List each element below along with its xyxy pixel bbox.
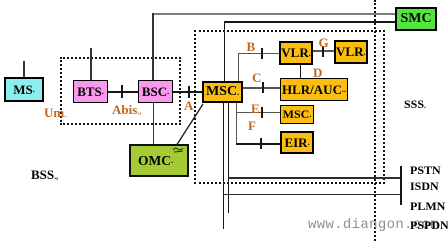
wire A BSC-MSC	[173, 91, 202, 93]
wire B to VLR	[238, 53, 279, 54]
watermark	[308, 217, 439, 233]
wire D VLR to HLR	[300, 65, 301, 79]
VLR box 2	[334, 40, 369, 64]
MSC2 box	[280, 105, 314, 124]
MSC box	[202, 81, 243, 103]
full-height dotted divider line	[374, 0, 376, 241]
HLR/AUC box	[280, 78, 348, 101]
wire E/F stem below MSC	[236, 103, 237, 144]
wire Abis BTS-BSC	[108, 91, 138, 93]
label C	[252, 71, 261, 84]
wire C MSC to HLR	[243, 87, 280, 89]
label PLMN	[410, 200, 445, 212]
wire to PSTN row	[228, 177, 401, 179]
label PSTN	[410, 164, 441, 176]
label D	[313, 66, 322, 79]
wire E to MSC2	[236, 112, 280, 113]
tick on A	[188, 86, 190, 98]
SSS dashed enclosure	[194, 30, 385, 184]
BSC box	[138, 80, 173, 103]
label G	[319, 36, 329, 49]
label B	[247, 40, 256, 53]
tick on Abis	[121, 85, 123, 98]
wire to PLMN row	[223, 194, 401, 196]
wire B stem up from MSC	[238, 53, 239, 81]
BTS box	[73, 80, 108, 103]
label SSS	[404, 98, 426, 110]
MS box	[4, 77, 44, 102]
SMC box	[395, 7, 437, 31]
wire above BTS	[90, 48, 92, 80]
label ISDN	[410, 180, 439, 192]
tick on E	[261, 107, 263, 118]
antenna wire above MS	[23, 61, 25, 77]
wire F to EIR	[236, 143, 280, 144]
label E	[251, 102, 260, 115]
tick on C	[262, 82, 264, 93]
label Um	[44, 106, 66, 119]
trunk wire 2 below MSC	[228, 103, 229, 213]
EIR box	[280, 131, 314, 154]
label PSPDN	[410, 219, 448, 231]
wire V1 down to BSC	[152, 13, 154, 81]
tick on G	[322, 46, 324, 57]
wire G between VLRs	[313, 50, 334, 51]
BSS dashed enclosure	[60, 57, 181, 125]
label A	[184, 99, 193, 112]
wire V2 down to MSC	[224, 21, 225, 81]
trunk wire 1 below MSC	[223, 103, 224, 229]
tick on F	[260, 138, 262, 149]
VLR box 1	[279, 41, 313, 65]
label F	[248, 119, 256, 132]
OMC corner squiggle	[172, 146, 184, 153]
OMC box	[129, 144, 189, 177]
network bus bar	[400, 166, 402, 205]
tick on B	[261, 48, 263, 59]
wire BSC down to OMC	[153, 103, 155, 144]
label BSS	[31, 168, 58, 181]
wire L2 second horizontal to SMC	[224, 21, 395, 22]
label Abis	[112, 103, 141, 116]
wire L1 top horizontal to SMC	[152, 13, 395, 15]
